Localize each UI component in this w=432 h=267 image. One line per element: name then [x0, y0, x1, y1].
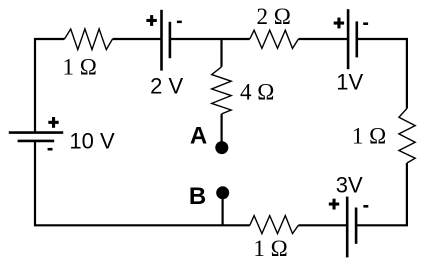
svg-text:1V: 1V — [336, 70, 363, 95]
svg-text:1 Ω: 1 Ω — [253, 236, 287, 261]
svg-text:1 Ω: 1 Ω — [352, 124, 386, 149]
svg-text:2 Ω: 2 Ω — [257, 4, 291, 29]
svg-text:1 Ω: 1 Ω — [63, 54, 97, 79]
svg-text:B: B — [189, 183, 206, 210]
svg-text:A: A — [190, 123, 207, 150]
svg-text:10 V: 10 V — [69, 128, 115, 153]
svg-text:2 V: 2 V — [150, 74, 183, 99]
svg-text:3V: 3V — [336, 173, 363, 198]
svg-text:4 Ω: 4 Ω — [240, 79, 274, 104]
